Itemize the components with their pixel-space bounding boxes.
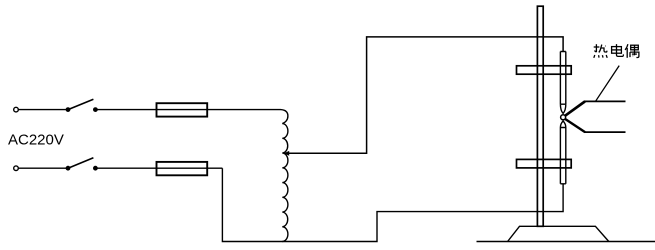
svg-text:AC220V: AC220V (8, 132, 64, 149)
